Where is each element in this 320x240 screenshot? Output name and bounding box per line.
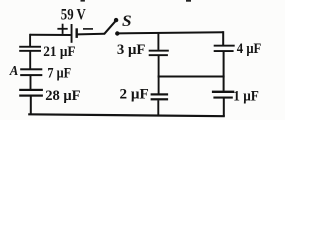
capacitor C2 7uF: bottom plate: [20, 74, 42, 76]
wire: right branch, from 4uF down through middle rail to capacitor 1uF: [223, 52, 225, 91]
svg-text:21 μF: 21 μF: [43, 44, 75, 60]
capacitor C5 2uF: bottom plate: [151, 98, 169, 100]
battery minus sign: [83, 28, 93, 30]
svg-text:2 μF: 2 μF: [120, 86, 149, 102]
svg-text:3 μF: 3 μF: [117, 42, 146, 58]
wire: middle branch, from top rail down to capacitor 3uF: [157, 33, 159, 50]
capacitor C2 7uF: top plate: [20, 68, 42, 70]
svg-text:4 μF: 4 μF: [237, 41, 261, 57]
wire: middle branch, from 3uF down through middle rail to capacitor 2uF: [158, 56, 160, 94]
capacitor C7 1uF: top plate: [212, 91, 234, 93]
svg-text:28 μF: 28 μF: [45, 88, 80, 104]
svg-text:A: A: [9, 63, 19, 78]
capacitor C7 1uF: bottom plate: [213, 97, 232, 99]
svg-text:1 μF: 1 μF: [233, 89, 259, 105]
switch S: upper contact dot: [114, 18, 118, 22]
capacitor C6 4uF: bottom plate: [214, 50, 234, 52]
battery plus sign: [57, 24, 67, 34]
wire: right branch, from 1uF down to bottom-right corner: [223, 98, 225, 116]
battery V1: long (positive) plate: [71, 24, 73, 43]
svg-text:59 V: 59 V: [61, 7, 86, 24]
wire: left branch between 21uF and 7uF, node A stub: [29, 52, 31, 69]
capacitor C3 28uF: top plate: [19, 89, 43, 91]
wire: bottom rail: [28, 114, 225, 116]
wire: left branch from 28uF down to bottom-left corner: [30, 97, 32, 115]
capacitor C4 3uF: top plate: [149, 50, 169, 52]
wire: top rail, left segment from left corner to battery + plate: [30, 34, 71, 36]
wire: right branch, top-right corner down to capacitor 4uF: [222, 31, 224, 45]
stray mark top-right (cropped text above figure): [186, 0, 191, 2]
svg-text:7 μF: 7 μF: [47, 65, 71, 81]
wire: top rail, segment from battery - plate to switch pivot: [78, 33, 105, 36]
switch S: open arm (slanted blade): [104, 21, 115, 34]
wire: middle branch, from 2uF down to bottom rail: [157, 100, 159, 116]
capacitor C1 21uF: bottom plate: [19, 50, 41, 52]
switch S: lower contact dot: [115, 31, 119, 35]
capacitor C5 2uF: top plate: [151, 93, 169, 95]
capacitor C1 21uF: top plate: [19, 46, 41, 48]
stray mark top-left (cropped text above figure): [81, 0, 85, 2]
wire: top rail, segment from switch to top-right corner: [118, 32, 224, 33]
capacitor C3 28uF: bottom plate: [19, 95, 43, 97]
wire: middle rail joining middle and right branches: [158, 76, 225, 78]
battery V1: short (negative) plate: [76, 28, 78, 38]
wire: left branch, top-left corner down to capacitor 21uF: [29, 34, 31, 46]
capacitor C6 4uF: top plate: [214, 45, 235, 47]
capacitor C4 3uF: bottom plate: [149, 54, 168, 56]
svg-text:S: S: [122, 13, 132, 30]
wire: left branch between 7uF and 28uF: [30, 76, 32, 89]
